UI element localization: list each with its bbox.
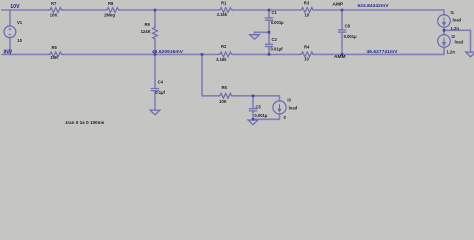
ground (right, below I1/I2 node)	[466, 52, 474, 57]
node row1 C1 junction	[268, 9, 271, 12]
svg-text:10V: 10V	[10, 4, 20, 10]
label I3	[284, 98, 298, 121]
svg-text:0.001µ: 0.001µ	[344, 34, 357, 39]
svg-text:3.16k: 3.16k	[217, 12, 228, 17]
wire row1 left	[2, 9, 48, 11]
wire mid-ground stub	[255, 32, 270, 34]
svg-text:R8: R8	[108, 1, 114, 6]
resistor R8	[105, 8, 120, 13]
ground (mid, near C1/C2)	[250, 35, 260, 40]
wire V1 bottom	[9, 38, 11, 55]
svg-text:10K: 10K	[50, 12, 58, 17]
wire row1 R8-R1	[120, 9, 218, 11]
resistor R9 (vertical)	[153, 26, 158, 43]
voltage source V1	[4, 26, 16, 38]
ground (below C5)	[248, 120, 258, 125]
wire row1 AMP-right	[342, 10, 444, 15]
wire R9 bottom	[154, 42, 156, 54]
svg-text:AMP: AMP	[333, 1, 344, 7]
label R7	[50, 1, 58, 17]
svg-text:R1: R1	[221, 1, 227, 6]
label C8	[344, 23, 357, 38]
svg-text:10K: 10K	[50, 55, 58, 60]
node row2 C2 junction	[268, 53, 271, 56]
label R3	[304, 1, 310, 18]
wire C8 bottom	[341, 32, 343, 54]
svg-text:AMM: AMM	[334, 54, 345, 60]
I3 arrow	[278, 104, 281, 112]
svg-text:INV: INV	[4, 49, 13, 55]
wire C1 top	[268, 10, 270, 17]
label C4	[155, 80, 165, 96]
svg-text:46.620916mV: 46.620916mV	[152, 49, 184, 55]
capacitor C5	[249, 109, 257, 111]
svg-text:10K: 10K	[219, 99, 227, 104]
svg-text:.tran 0 1s 0 100ms: .tran 0 1s 0 100ms	[65, 120, 105, 125]
label R1	[217, 1, 228, 18]
capacitor C8	[338, 30, 346, 32]
svg-text:2Meg: 2Meg	[104, 12, 115, 17]
wire C4 to ground	[154, 91, 156, 110]
svg-text:C5: C5	[256, 104, 262, 109]
svg-text:10: 10	[304, 56, 309, 61]
wire row2 left	[2, 53, 48, 55]
V1 plus/minus marks	[9, 28, 12, 35]
wire I1-I2 mid	[443, 27, 445, 34]
resistor R5	[48, 52, 63, 57]
node row2 drop junction	[201, 53, 204, 56]
I1 arrow	[443, 18, 446, 26]
svg-text:10: 10	[17, 38, 22, 43]
wire R6 to I3	[234, 96, 280, 101]
svg-text:load: load	[289, 106, 298, 111]
capacitor C4	[151, 89, 159, 91]
label R4	[304, 45, 310, 62]
wire V1 top	[9, 10, 11, 26]
svg-text:1.2n: 1.2n	[447, 49, 456, 54]
svg-text:R4: R4	[304, 45, 310, 50]
wire bottom branch drop	[202, 54, 218, 95]
capacitor C2	[265, 44, 273, 46]
node I1-I2 junction	[443, 29, 446, 32]
svg-text:C8: C8	[345, 23, 351, 28]
svg-text:R5: R5	[52, 45, 58, 50]
ground (below C4)	[150, 110, 160, 115]
svg-text:0.001µ: 0.001µ	[271, 20, 284, 25]
resistor R6	[218, 93, 234, 98]
wire row1 R3-AMP	[315, 9, 343, 11]
wire row2 R4-right	[315, 47, 445, 54]
wire row2 R2-R4	[233, 53, 300, 55]
svg-text:3.16k: 3.16k	[216, 57, 227, 62]
node AMP junction	[341, 9, 344, 12]
svg-text:124K: 124K	[141, 29, 151, 34]
wire C1-C2 mid	[268, 21, 270, 44]
wire C4 branch	[154, 54, 156, 88]
label I2	[447, 34, 464, 54]
label C2	[271, 37, 284, 51]
svg-text:C2: C2	[272, 37, 278, 42]
svg-text:load: load	[453, 18, 462, 23]
node C1-C2 mid junction	[268, 31, 271, 34]
label V1	[17, 20, 23, 43]
wire C5 bottom	[252, 111, 254, 119]
resistor R4	[300, 52, 315, 57]
svg-text:C4: C4	[158, 80, 164, 85]
svg-text:1.2n: 1.2n	[451, 26, 460, 31]
svg-text:0.01µf: 0.01µf	[271, 46, 284, 51]
wire I3 bottom loop	[253, 114, 280, 119]
label R5	[50, 45, 58, 60]
svg-text:624.84342mV: 624.84342mV	[358, 3, 390, 9]
wire right ground branch	[444, 30, 471, 52]
svg-text:load: load	[455, 40, 464, 45]
resistor R2	[218, 52, 233, 57]
wire row2 mid	[63, 53, 218, 55]
wire row1 R1-R3	[233, 9, 300, 11]
current source I2	[438, 35, 451, 48]
node R6-C5 junction	[252, 95, 255, 98]
svg-text:R3: R3	[304, 1, 310, 6]
label C5	[254, 104, 267, 118]
wire C2 bottom	[268, 47, 270, 55]
resistor R1	[218, 8, 233, 13]
label C1	[271, 10, 284, 25]
node C5-ground junction	[252, 118, 255, 121]
svg-text:C1: C1	[272, 10, 278, 15]
svg-text:R2: R2	[221, 44, 227, 49]
svg-text:46.627741mV: 46.627741mV	[367, 49, 399, 55]
svg-text:0.001µ: 0.001µ	[254, 113, 267, 118]
wire C8 top	[341, 10, 343, 29]
svg-text:0.1µf: 0.1µf	[155, 90, 165, 95]
node AMM junction	[341, 53, 344, 56]
label R8	[104, 1, 115, 17]
resistor R3	[300, 8, 315, 13]
node row2 R9 junction	[154, 53, 157, 56]
label R2	[216, 44, 227, 62]
label R9	[141, 22, 151, 34]
svg-text:10: 10	[305, 13, 310, 18]
wire C5 top	[252, 96, 254, 108]
svg-text:R9: R9	[145, 22, 151, 27]
capacitor C1	[265, 18, 273, 20]
svg-text:V1: V1	[17, 20, 23, 25]
current source I1	[438, 15, 451, 28]
label I1	[451, 10, 462, 31]
resistor R7	[48, 8, 63, 13]
current source I3	[273, 101, 286, 114]
node row1 R9 junction	[154, 9, 157, 12]
svg-text:R7: R7	[51, 1, 57, 6]
wire R9 top	[154, 10, 156, 26]
wire row1 R7-R8	[63, 9, 105, 11]
label R6	[219, 85, 228, 104]
svg-text:R6: R6	[222, 85, 228, 90]
I2 arrow	[443, 38, 446, 46]
